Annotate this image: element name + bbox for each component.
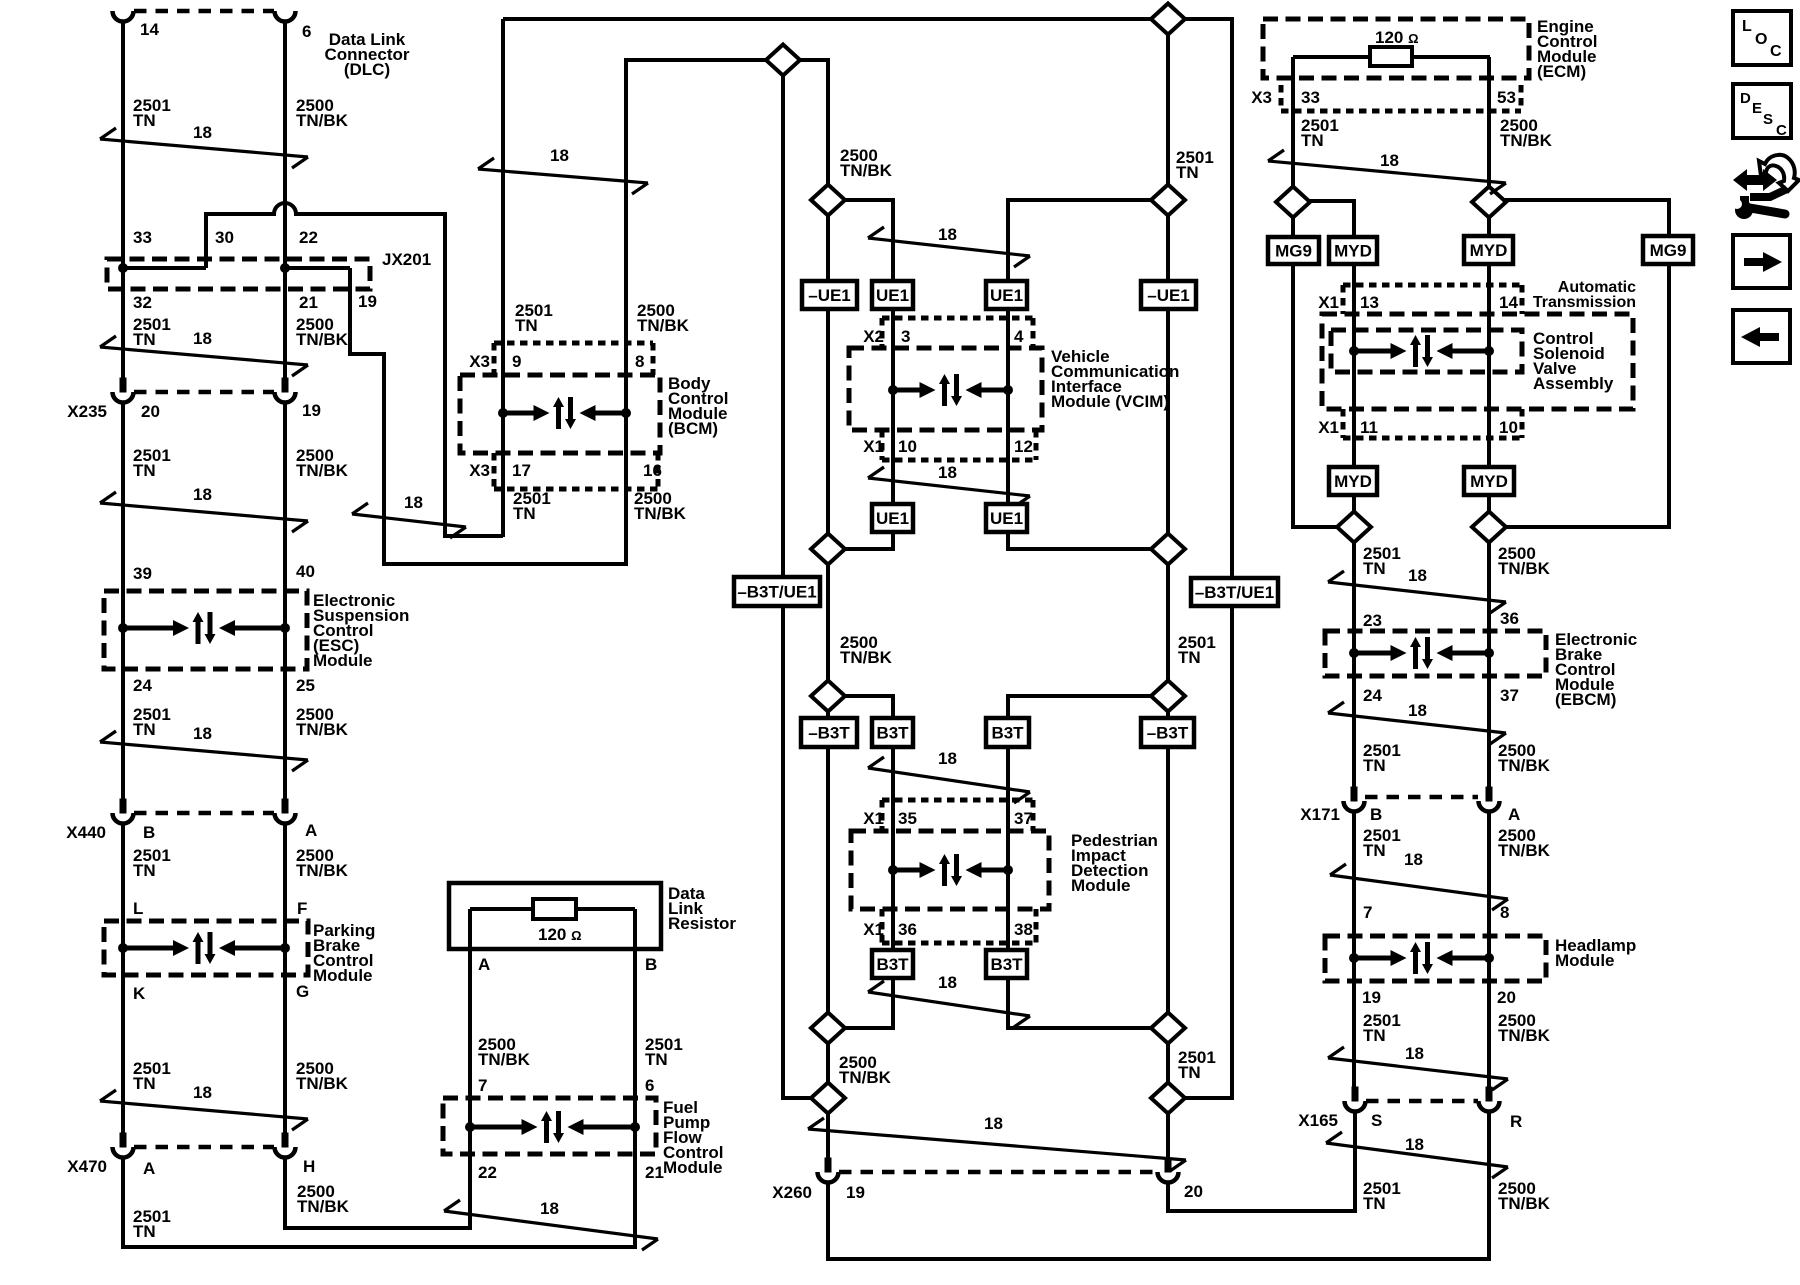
- wire resistor leg B: [633, 909, 637, 949]
- svg-text:20: 20: [141, 402, 160, 421]
- ESC module box: [104, 591, 307, 669]
- BCM module box: [460, 375, 660, 453]
- svg-text:13: 13: [1360, 293, 1379, 312]
- svg-text:18: 18: [193, 724, 212, 743]
- svg-text:–UE1: –UE1: [1147, 286, 1190, 305]
- svg-text:B: B: [143, 823, 155, 842]
- wire 2500 TN/BK X171-A to X165-R: [1487, 812, 1491, 1088]
- svg-text:–B3T/UE1: –B3T/UE1: [737, 583, 816, 602]
- wire resistor loop inside housing: [470, 907, 635, 911]
- wire 2500 TN/BK X260-19 to X165-R bottom run: [828, 1112, 1489, 1259]
- BCM X3 bottom bracket left: [492, 453, 497, 489]
- svg-text:33: 33: [1301, 88, 1320, 107]
- Control Solenoid Valve module box: [1331, 330, 1522, 372]
- option box &#8211;B3T/UE1: [1191, 578, 1278, 606]
- wire 2501 TN X235-20 to X440-B: [121, 403, 125, 800]
- connector X260 dashed line: [839, 1170, 1157, 1175]
- Pedestrian X1 bracket right: [1031, 800, 1036, 831]
- svg-text:X260: X260: [772, 1183, 812, 1202]
- svg-text:E: E: [1752, 100, 1762, 117]
- svg-text:22: 22: [478, 1163, 497, 1182]
- connector X260 pin 20: [1158, 1158, 1179, 1183]
- ECM X3 bracket right: [1519, 85, 1524, 111]
- node 2500 below ECM-53: [1472, 187, 1506, 218]
- svg-text:X1: X1: [1318, 293, 1339, 312]
- svg-text:38: 38: [1014, 920, 1033, 939]
- svg-text:B: B: [1370, 805, 1382, 824]
- connector X165 dashed line: [1366, 1099, 1478, 1104]
- wire gauge 18: [1328, 571, 1506, 613]
- wire 2501 TN ECM-33 / MG9 rail: [1293, 57, 1337, 527]
- wire 2501 TN X440-B to X470-A: [121, 824, 125, 1134]
- svg-text:B3T: B3T: [991, 724, 1024, 743]
- wire resistor leg A: [468, 909, 472, 949]
- svg-text:6: 6: [645, 1076, 654, 1095]
- wire 2501 TN X260-20 to X165-S bottom run: [1168, 1112, 1355, 1211]
- wire 2501 TN top bus to -B3T/UE1 rail: [503, 19, 1232, 1098]
- Pedestrian module internal arrows: [888, 854, 1013, 886]
- wire 2501 TN BCM 9/17 riser: [501, 19, 505, 537]
- Data Link Resistor housing: [449, 883, 661, 949]
- svg-text:UE1: UE1: [876, 286, 909, 305]
- svg-text:ParkingBrakeControlModule: ParkingBrakeControlModule: [313, 921, 375, 985]
- wire data link resistor loop: [470, 907, 635, 911]
- svg-text:18: 18: [1380, 151, 1399, 170]
- connector X470 dashed line: [134, 1145, 274, 1150]
- option box MG9: [1643, 236, 1693, 264]
- svg-text:4: 4: [1014, 327, 1024, 346]
- connector X235 pin 19: [275, 378, 296, 403]
- svg-text:120 Ω: 120 Ω: [1375, 28, 1419, 47]
- option box UE1: [872, 281, 913, 309]
- BCM X3 bottom connector row: [494, 487, 658, 492]
- BCM internal arrows: [498, 397, 631, 429]
- svg-text:C: C: [1776, 122, 1787, 139]
- svg-text:19: 19: [302, 401, 321, 420]
- BCM X3 top bracket right: [651, 343, 656, 375]
- svg-text:F: F: [297, 899, 307, 918]
- wire 2501 TN MYD riser to X171-B: [1310, 201, 1354, 789]
- Pedestrian X1 bracket left: [880, 800, 885, 831]
- connector DLC pin 14: [113, 11, 134, 22]
- node 2501 below ECM-33: [1276, 187, 1310, 218]
- option box UE1: [872, 504, 913, 532]
- option box &#8211;B3T/UE1: [734, 577, 820, 606]
- wire gauge 18: [1328, 1047, 1508, 1090]
- svg-text:X440: X440: [66, 823, 106, 842]
- svg-text:8: 8: [1500, 903, 1509, 922]
- svg-text:35: 35: [898, 809, 917, 828]
- svg-text:20: 20: [1184, 1182, 1203, 1201]
- transmission X1 bracket left: [1341, 285, 1346, 314]
- node 2500 below VCIM: [811, 534, 845, 565]
- icon tech2 / double arrow with connector and wrench: [1732, 155, 1799, 219]
- wire JX201-19 to BCM-16 staircase: [350, 268, 626, 564]
- wire JX201 22-19 jumper: [285, 266, 350, 270]
- wire gauge 18: [478, 158, 648, 194]
- svg-text:18: 18: [193, 329, 212, 348]
- Headlamp internal arrows: [1349, 942, 1494, 974]
- wire gauge 18: [868, 467, 1030, 507]
- svg-text:B: B: [645, 955, 657, 974]
- svg-text:UE1: UE1: [876, 509, 909, 528]
- node 2501 below VCIM: [1151, 534, 1185, 565]
- wire gauge 18: [100, 731, 308, 771]
- node 2500 below transmission: [1472, 512, 1506, 543]
- svg-text:18: 18: [1408, 701, 1427, 720]
- svg-text:3: 3: [901, 327, 910, 346]
- svg-text:C: C: [1770, 43, 1782, 60]
- svg-text:MG9: MG9: [1650, 241, 1687, 260]
- wire 2500 TN/BK top bus: [626, 60, 828, 186]
- svg-text:39: 39: [133, 564, 152, 583]
- svg-text:24: 24: [133, 676, 152, 695]
- svg-text:7: 7: [478, 1076, 487, 1095]
- wire gauge 18: [1328, 702, 1506, 744]
- wire 2500 TN/BK ECM-53 to X171-A: [1487, 57, 1491, 789]
- svg-text:9: 9: [512, 352, 521, 371]
- svg-text:B3T: B3T: [876, 955, 909, 974]
- connector X235 pin 20: [113, 378, 134, 403]
- option box B3T: [872, 950, 913, 978]
- connector X171 dashed line: [1365, 795, 1478, 800]
- connector X440 pin B: [113, 799, 134, 824]
- wire gauge 18: [1326, 1132, 1508, 1178]
- wire VCIM pins 4/12: [1008, 200, 1151, 549]
- svg-text:14: 14: [1499, 293, 1518, 312]
- svg-text:UE1: UE1: [990, 286, 1023, 305]
- icon DESC: [1733, 84, 1791, 139]
- wire gauge 18: [100, 128, 308, 168]
- svg-text:L: L: [133, 899, 143, 918]
- wire gauge 18: [868, 757, 1030, 803]
- svg-text:18: 18: [404, 493, 423, 512]
- svg-text:S: S: [1763, 111, 1773, 128]
- svg-text:–B3T: –B3T: [1147, 724, 1189, 743]
- PBCM internal arrows: [118, 932, 290, 964]
- wire gauge 18: [1268, 150, 1506, 194]
- transmission X1 bottom bracket left: [1341, 409, 1346, 438]
- transmission X1 bottom bracket right: [1520, 409, 1525, 438]
- svg-text:11: 11: [1360, 418, 1378, 437]
- option box B3T: [872, 718, 913, 747]
- svg-text:24: 24: [1363, 686, 1382, 705]
- EBCM module box: [1325, 631, 1546, 676]
- svg-text:7: 7: [1363, 903, 1372, 922]
- svg-text:MYD: MYD: [1334, 242, 1372, 261]
- svg-text:23: 23: [1363, 611, 1382, 630]
- EBCM internal arrows: [1349, 637, 1494, 669]
- svg-text:18: 18: [1408, 566, 1427, 585]
- VCIM X2 top connector row: [882, 316, 1033, 321]
- svg-text:40: 40: [296, 562, 315, 581]
- Fuel Pump module internal arrows: [465, 1111, 640, 1143]
- wire gauge 18: [352, 503, 466, 538]
- wire 2500 TN/BK -B3T/UE1 bypass rail: [783, 60, 811, 1098]
- svg-text:18: 18: [550, 146, 569, 165]
- svg-text:O: O: [1755, 31, 1767, 48]
- wire gauge 18: [868, 981, 1030, 1027]
- svg-text:X2: X2: [863, 327, 884, 346]
- node 2501 above Pedestrian: [1151, 681, 1185, 712]
- junction dot JX201 2500: [280, 263, 290, 273]
- transmission X1 bracket right: [1520, 285, 1525, 314]
- ECM module box: [1263, 19, 1529, 78]
- svg-text:18: 18: [1405, 1044, 1424, 1063]
- option box &#8211;UE1: [802, 281, 857, 309]
- svg-text:X1: X1: [863, 809, 884, 828]
- svg-text:18: 18: [1404, 850, 1423, 869]
- svg-text:UE1: UE1: [990, 509, 1023, 528]
- resistor 120 ohm (ECM): [1370, 47, 1412, 66]
- connector X440 pin A: [275, 799, 296, 824]
- connector X235 dashed line: [134, 390, 274, 395]
- svg-text:R: R: [1510, 1112, 1522, 1131]
- node top bus junction 2500: [766, 45, 800, 76]
- VCIM module box: [849, 348, 1042, 430]
- svg-text:MG9: MG9: [1275, 242, 1312, 261]
- svg-text:22: 22: [299, 228, 318, 247]
- svg-text:X3: X3: [469, 461, 490, 480]
- svg-text:19: 19: [1362, 988, 1381, 1007]
- svg-text:21: 21: [299, 293, 318, 312]
- svg-text:16: 16: [643, 461, 662, 480]
- svg-text:30: 30: [215, 228, 234, 247]
- option box B3T: [986, 950, 1027, 978]
- option box MYD: [1329, 467, 1377, 495]
- option box B3T: [986, 718, 1029, 747]
- icon arrow right: [1733, 235, 1790, 288]
- wire 2500 TN/BK X470-H to Fuel Pump 22: [285, 909, 470, 1228]
- svg-text:18: 18: [1405, 1135, 1424, 1154]
- svg-text:18: 18: [938, 463, 957, 482]
- option box MYD: [1464, 467, 1514, 495]
- svg-text:33: 33: [133, 228, 152, 247]
- transmission X1 bottom connector row: [1343, 436, 1522, 441]
- junction dot JX201 2501: [118, 263, 128, 273]
- svg-text:X1: X1: [1318, 418, 1339, 437]
- svg-text:D: D: [1740, 90, 1751, 107]
- connector X165 pin R: [1479, 1087, 1500, 1112]
- wire 2500 TN/BK DLC-6 to X235-19: [283, 21, 287, 379]
- svg-text:A: A: [478, 955, 490, 974]
- svg-text:X1: X1: [863, 920, 884, 939]
- VCIM X2 bracket right: [1031, 318, 1036, 348]
- connector X171 pin B: [1344, 787, 1365, 812]
- svg-text:–B3T/UE1: –B3T/UE1: [1195, 583, 1274, 602]
- VCIM X1 bracket right: [1034, 430, 1039, 460]
- node 2500 below Pedestrian: [811, 1013, 845, 1044]
- Control Solenoid Valve internal arrows: [1349, 335, 1494, 367]
- wire 2500 TN/BK BCM 8/16 riser: [624, 58, 628, 566]
- svg-text:18: 18: [938, 973, 957, 992]
- transmission X1 top connector row: [1343, 283, 1522, 288]
- wire 2500 TN/BK UE1/B3T rail: [826, 60, 830, 1160]
- option box &#8211;B3T: [1141, 718, 1194, 747]
- svg-text:H: H: [303, 1157, 315, 1176]
- option box UE1: [986, 281, 1027, 309]
- node 2501 above VCIM: [1151, 185, 1185, 216]
- svg-text:MYD: MYD: [1470, 241, 1508, 260]
- resistor 120 ohm (Data Link Resistor): [533, 899, 576, 919]
- svg-text:32: 32: [133, 293, 152, 312]
- node 2501 above X260-20: [1151, 1083, 1185, 1114]
- wire 2500 TN/BK MG9 rail right: [1504, 200, 1669, 527]
- Pedestrian X1 top connector row: [882, 798, 1033, 803]
- svg-text:X3: X3: [1251, 88, 1272, 107]
- VCIM internal arrows: [888, 374, 1013, 406]
- BCM X3 top connector row: [494, 341, 653, 346]
- svg-text:6: 6: [302, 22, 311, 41]
- svg-text:A: A: [305, 821, 317, 840]
- junction block JX201: [107, 259, 370, 289]
- wire 2501 TN X171-B to X165-S: [1352, 812, 1356, 1088]
- svg-text:X171: X171: [1300, 805, 1340, 824]
- svg-text:17: 17: [512, 461, 531, 480]
- svg-text:37: 37: [1014, 809, 1033, 828]
- connector X470 pin H: [275, 1133, 296, 1158]
- svg-text:53: 53: [1497, 88, 1516, 107]
- icon arrow left: [1733, 310, 1790, 363]
- Fuel Pump Flow Control Module box: [443, 1098, 656, 1154]
- svg-text:18: 18: [193, 485, 212, 504]
- node 2501 below Pedestrian: [1151, 1013, 1185, 1044]
- wire JX201 33-30 jumper: [123, 266, 206, 270]
- svg-text:MYD: MYD: [1334, 472, 1372, 491]
- svg-text:36: 36: [898, 920, 917, 939]
- ESC module internal arrows: [118, 612, 290, 644]
- svg-text:X165: X165: [1298, 1111, 1338, 1130]
- BCM X3 top bracket left: [492, 343, 497, 375]
- node 2500 above Pedestrian: [811, 681, 845, 712]
- option box &#8211;B3T: [801, 718, 857, 747]
- svg-text:A: A: [143, 1159, 155, 1178]
- svg-text:–UE1: –UE1: [808, 286, 851, 305]
- ECM X3 bracket left: [1279, 85, 1284, 111]
- VCIM X1 bottom connector row: [882, 458, 1036, 463]
- svg-text:18: 18: [540, 1199, 559, 1218]
- Headlamp Module box: [1325, 936, 1546, 981]
- Parking Brake Control Module box: [104, 921, 308, 975]
- wire gauge 18: [808, 1118, 1186, 1171]
- connector X171 pin A: [1479, 787, 1500, 812]
- option box MYD: [1329, 237, 1377, 264]
- svg-text:19: 19: [358, 292, 377, 311]
- wire ECM internal 120 ohm run: [1293, 55, 1490, 59]
- connector X440 dashed line: [134, 811, 274, 816]
- svg-text:A: A: [1508, 805, 1520, 824]
- svg-text:X3: X3: [469, 352, 490, 371]
- connector X470 pin A: [113, 1133, 134, 1158]
- wire 2501 TN UE1/B3T rail: [1166, 19, 1170, 1160]
- node 2500 above VCIM: [811, 185, 845, 216]
- Pedestrian Impact Detection Module box: [851, 831, 1049, 909]
- Pedestrian X1 bottom bracket left: [880, 909, 885, 943]
- svg-text:JX201: JX201: [382, 250, 431, 269]
- svg-text:20: 20: [1497, 988, 1516, 1007]
- node 2501 below transmission: [1337, 512, 1371, 543]
- svg-text:21: 21: [645, 1163, 664, 1182]
- svg-text:18: 18: [193, 123, 212, 142]
- svg-text:–B3T: –B3T: [808, 724, 850, 743]
- svg-text:X470: X470: [67, 1157, 107, 1176]
- svg-text:18: 18: [938, 225, 957, 244]
- option box MYD: [1464, 236, 1513, 264]
- VCIM X2 bracket left: [880, 318, 885, 348]
- svg-text:10: 10: [898, 437, 917, 456]
- wire gauge 18: [444, 1200, 658, 1250]
- icon LOC: [1733, 11, 1791, 65]
- Pedestrian X1 bottom connector row: [882, 941, 1036, 946]
- option box &#8211;UE1: [1141, 281, 1196, 309]
- wire gauge 18: [100, 492, 308, 532]
- option box MG9: [1268, 237, 1319, 264]
- wire Pedestrian pins 35/36: [845, 696, 893, 1028]
- svg-text:B3T: B3T: [990, 955, 1023, 974]
- svg-text:X235: X235: [67, 402, 107, 421]
- ECM X3 connector row: [1281, 109, 1521, 114]
- connector X165 pin S: [1345, 1087, 1366, 1112]
- wire Pedestrian pins 37/38: [1008, 696, 1151, 1028]
- svg-text:37: 37: [1500, 686, 1519, 705]
- svg-text:L: L: [1742, 18, 1752, 35]
- svg-text:120 Ω: 120 Ω: [538, 925, 582, 944]
- svg-text:14: 14: [140, 20, 159, 39]
- svg-text:X1: X1: [863, 437, 884, 456]
- wire JX201-30 to BCM-17 with hop over 2500: [206, 203, 503, 536]
- svg-text:B3T: B3T: [876, 724, 909, 743]
- connector X260 pin 19: [818, 1158, 839, 1183]
- VCIM X1 bracket left: [880, 430, 885, 460]
- wire gauge 18: [868, 227, 1030, 267]
- Pedestrian X1 bottom bracket right: [1034, 909, 1039, 943]
- svg-text:25: 25: [296, 676, 315, 695]
- node 2500 above X260-19: [811, 1083, 845, 1114]
- svg-text:36: 36: [1500, 609, 1519, 628]
- svg-text:18: 18: [193, 1083, 212, 1102]
- svg-text:12: 12: [1014, 437, 1033, 456]
- wire 2500 TN/BK X235-19 to X440-A: [283, 403, 287, 800]
- wire 2500 TN/BK X440-A to X470-H: [283, 824, 287, 1134]
- svg-text:S: S: [1371, 1111, 1382, 1130]
- connector DLC dashed line: [134, 9, 274, 14]
- BCM X3 bottom bracket right: [656, 453, 661, 489]
- wire gauge 18: [100, 1090, 308, 1130]
- svg-text:K: K: [133, 984, 146, 1003]
- svg-text:19: 19: [846, 1183, 865, 1202]
- Automatic Transmission assembly box: [1322, 314, 1633, 409]
- connector DLC pin 6: [275, 11, 296, 22]
- option box UE1: [986, 504, 1027, 532]
- svg-text:18: 18: [984, 1114, 1003, 1133]
- svg-text:18: 18: [938, 749, 957, 768]
- wire VCIM pins 3/10: [845, 200, 893, 549]
- svg-text:10: 10: [1499, 418, 1518, 437]
- node top bus junction 2501: [1151, 4, 1185, 35]
- wire 2501 TN DLC-14 to X235-20: [121, 21, 125, 379]
- wire gauge 18: [1330, 864, 1508, 910]
- svg-text:8: 8: [635, 352, 644, 371]
- svg-text:G: G: [296, 982, 309, 1001]
- wire gauge 18: [100, 336, 308, 376]
- svg-text:MYD: MYD: [1470, 472, 1508, 491]
- wire 2501 TN X470-A to Fuel Pump 21 via bottom bus: [123, 909, 635, 1247]
